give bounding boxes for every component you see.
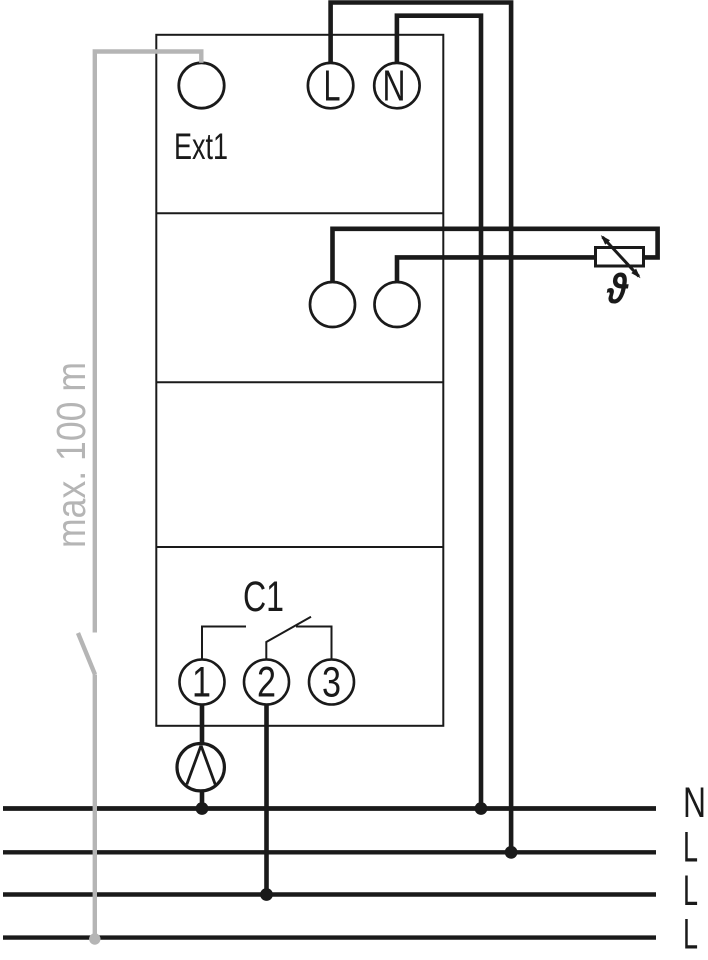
svg-text:L: L bbox=[683, 824, 698, 872]
section divider 3 bbox=[156, 546, 443, 548]
svg-text:N: N bbox=[383, 61, 406, 110]
terminal N bbox=[374, 63, 419, 108]
svg-text:3: 3 bbox=[322, 659, 341, 707]
sensor terminal left bbox=[310, 282, 355, 327]
bus line L3 bbox=[3, 935, 656, 939]
gray external switch wire to Ext1 bbox=[95, 52, 202, 633]
wire L: from terminal L up, right, down to L bus bbox=[331, 3, 512, 853]
terminal Ext1 bbox=[179, 63, 224, 108]
gray junction dot on bus L3 bbox=[89, 933, 100, 944]
pump M1 symbol bbox=[177, 744, 224, 791]
junction dot terminal2 wire/L bus 2 bbox=[260, 888, 273, 901]
wire terminal 2 to L bus 3 bbox=[264, 705, 269, 895]
gray switch blade bbox=[78, 633, 95, 675]
svg-text:2: 2 bbox=[257, 659, 276, 707]
junction dot N wire/N bus bbox=[475, 802, 488, 815]
terminal L bbox=[308, 63, 353, 108]
junction dot pump/N bus bbox=[196, 802, 209, 815]
svg-text:Ext1: Ext1 bbox=[174, 126, 228, 167]
wire N: from terminal N up, right, down to N bus bbox=[397, 16, 481, 809]
svg-text:C1: C1 bbox=[243, 573, 284, 621]
wire terminal 1 to pump bbox=[200, 705, 205, 746]
section divider 1 bbox=[156, 212, 443, 214]
temperature sensor R-theta box bbox=[596, 248, 644, 267]
bus line L1 bbox=[3, 850, 656, 854]
terminal 2 bbox=[244, 660, 289, 705]
svg-text:L: L bbox=[683, 867, 698, 915]
gray wire below switch bbox=[93, 675, 97, 940]
wire sensor 2: right sensor terminal up, right to sensor box left end bbox=[397, 257, 595, 282]
sensor arrow (variable, double headed diagonal) bbox=[601, 235, 641, 278]
device outline U1 bbox=[156, 35, 443, 726]
svg-text:max. 100 m: max. 100 m bbox=[48, 362, 94, 548]
svg-text:L: L bbox=[324, 61, 341, 110]
bus line L2 bbox=[3, 892, 656, 896]
svg-text:N: N bbox=[683, 779, 706, 827]
sensor terminal right bbox=[375, 282, 420, 327]
bus line N bbox=[3, 806, 656, 811]
svg-text:L: L bbox=[683, 911, 698, 959]
terminal 3 bbox=[309, 660, 354, 705]
section divider 2 bbox=[156, 381, 443, 383]
svg-text:ϑ: ϑ bbox=[606, 265, 629, 312]
relay contact C1: fixed side from terminal 3 bbox=[296, 627, 332, 660]
wire sensor 1: left sensor terminal up, right, down to sensor box right end bbox=[333, 229, 658, 282]
wire pump to N bus bbox=[200, 790, 205, 809]
terminal 1 bbox=[180, 660, 225, 705]
svg-text:1: 1 bbox=[192, 658, 211, 706]
relay contact C1: moving arm from terminal 2 bbox=[266, 617, 311, 660]
relay contact C1: fixed side from terminal 1 bbox=[202, 627, 246, 660]
junction dot L wire/L bus bbox=[505, 846, 518, 859]
pump triangle bbox=[187, 746, 215, 785]
